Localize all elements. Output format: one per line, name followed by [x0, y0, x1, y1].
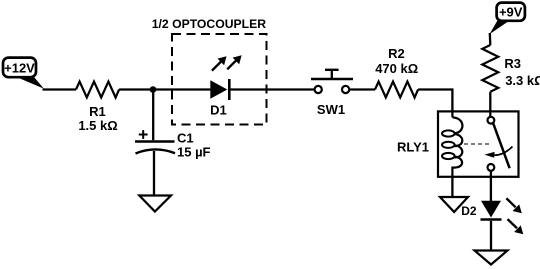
- supply label +12V: [3, 58, 44, 89]
- wire +12V to R1: [43, 88, 77, 90]
- D2 light arrows: [506, 198, 523, 234]
- relay switch arm: [493, 123, 509, 168]
- wire D1 cathode to SW1: [231, 88, 315, 90]
- wire SW1 to R2: [349, 88, 375, 90]
- LED D2: [461, 201, 501, 220]
- optocoupler dashed box: [172, 34, 267, 125]
- wire D2 to ground: [490, 221, 492, 251]
- svg-text:SW1: SW1: [317, 102, 345, 117]
- svg-text:+9V: +9V: [499, 4, 523, 19]
- relay RLY1 box: [438, 111, 519, 176]
- svg-text:15 µF: 15 µF: [177, 144, 211, 159]
- svg-text:C1: C1: [177, 131, 194, 146]
- wire contact to D2: [490, 171, 492, 201]
- svg-text:+12V: +12V: [4, 61, 35, 76]
- node junction at C1 tap: [150, 86, 157, 93]
- resistor R1: [76, 82, 119, 133]
- relay actuation dashed link: [464, 143, 492, 145]
- relay arm arrow: [484, 147, 512, 158]
- resistor R2: [375, 46, 418, 98]
- svg-text:1.5 kΩ: 1.5 kΩ: [78, 118, 117, 133]
- svg-text:D1: D1: [210, 103, 227, 118]
- ground under D2: [475, 251, 508, 265]
- D1 light arrows: [212, 55, 242, 70]
- svg-text:R2: R2: [388, 46, 405, 61]
- capacitor C1: [135, 90, 211, 196]
- wire R2 to relay coil: [418, 90, 452, 113]
- wire R1 to D1 anode: [119, 88, 210, 90]
- wire R3 to relay contact: [489, 92, 491, 117]
- wire coil to ground: [451, 177, 453, 197]
- svg-text:RLY1: RLY1: [397, 140, 429, 155]
- pushbutton SW1: [311, 70, 353, 117]
- LED D1: [210, 79, 229, 118]
- svg-text:3.3 kΩ: 3.3 kΩ: [505, 73, 540, 88]
- wire +9V to R3: [489, 33, 492, 45]
- svg-text:470 kΩ: 470 kΩ: [375, 61, 418, 76]
- supply label +9V: [490, 3, 525, 35]
- svg-text:R3: R3: [504, 56, 521, 71]
- svg-text:D2: D2: [461, 204, 477, 218]
- svg-text:1/2 OPTOCOUPLER: 1/2 OPTOCOUPLER: [152, 17, 266, 31]
- relay coil: [442, 112, 462, 178]
- ground under C1: [139, 196, 171, 212]
- resistor R3: [482, 45, 540, 92]
- ground under coil: [440, 197, 468, 212]
- relay contact terminals: [488, 117, 495, 124]
